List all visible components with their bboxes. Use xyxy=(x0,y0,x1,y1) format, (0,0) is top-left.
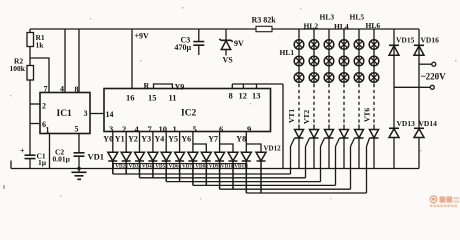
svg-text:Y2: Y2 xyxy=(128,134,138,143)
svg-text:7: 7 xyxy=(44,85,48,94)
diode VD8 xyxy=(201,152,211,185)
lamp column HL2 xyxy=(309,29,319,84)
svg-text:VS: VS xyxy=(223,56,234,65)
wire gate bus 2 xyxy=(140,177,306,179)
svg-text:Y4: Y4 xyxy=(155,134,165,143)
pin 3 wire to IC2 pin 14 xyxy=(90,113,104,115)
wire branch to VD10 xyxy=(220,144,233,152)
svg-text:+9V: +9V xyxy=(135,32,150,41)
svg-text:14: 14 xyxy=(106,110,114,119)
diode VD14 xyxy=(414,128,424,168)
svg-text:9V: 9V xyxy=(234,39,244,48)
diode VD10 xyxy=(228,152,238,189)
svg-text:HL2: HL2 xyxy=(304,22,319,31)
svg-text:VD15: VD15 xyxy=(396,36,415,45)
thyristor VT4 xyxy=(336,125,349,186)
svg-text:~220V: ~220V xyxy=(421,72,446,82)
svg-text:15: 15 xyxy=(148,93,157,103)
thyristor VT5 xyxy=(351,125,364,190)
wire gate bus 5 xyxy=(220,188,351,190)
svg-text:Y1: Y1 xyxy=(115,134,125,143)
lamp column HL6 xyxy=(369,29,379,84)
pin 2 stub xyxy=(30,103,40,105)
wire reset jumper pins 15-11 xyxy=(154,84,173,89)
svg-text:R3 82k: R3 82k xyxy=(252,16,277,25)
lamp column HL4 xyxy=(339,29,349,84)
node C2-ground junction xyxy=(77,167,80,170)
svg-text:VT1: VT1 xyxy=(287,109,296,123)
wire common cathode rail xyxy=(113,168,419,170)
svg-text:Y8: Y8 xyxy=(236,134,246,143)
svg-text:470µ: 470µ xyxy=(175,43,192,52)
thyristor VT6 xyxy=(367,125,379,194)
svg-text:100k: 100k xyxy=(10,64,26,73)
lamp column HL3 xyxy=(324,29,334,84)
svg-text:2: 2 xyxy=(42,102,46,111)
svg-text:IC2: IC2 xyxy=(181,109,197,119)
resistor R2 xyxy=(27,66,34,81)
label boxes VD2-VD11 xyxy=(114,164,248,169)
svg-text:1k: 1k xyxy=(36,41,45,50)
svg-text:12: 12 xyxy=(239,91,248,101)
ground xyxy=(72,172,87,179)
svg-text:Y5: Y5 xyxy=(168,134,178,143)
node terminal 2 xyxy=(430,85,434,89)
svg-text:0.01µ: 0.01µ xyxy=(53,155,71,164)
wire junction to IC1 pin7 xyxy=(30,58,49,93)
wire IC2 outputs to diodes xyxy=(113,132,247,153)
resistor R1 xyxy=(27,33,34,47)
wire branch to VD12 xyxy=(246,144,261,152)
svg-text:HL4: HL4 xyxy=(334,22,349,31)
pin 5 wire xyxy=(78,134,80,153)
svg-text:HL1: HL1 xyxy=(280,48,295,57)
svg-text:1µ: 1µ xyxy=(38,158,47,167)
svg-text:VD1: VD1 xyxy=(88,152,105,162)
svg-text:VD11: VD11 xyxy=(234,165,246,170)
diode VD3 xyxy=(135,152,145,178)
svg-text:VT2: VT2 xyxy=(302,110,311,124)
pin 16 wire to +9V xyxy=(131,29,133,89)
svg-text:VD14: VD14 xyxy=(419,119,438,128)
logo watermark xyxy=(430,196,459,207)
svg-text:3: 3 xyxy=(84,109,88,118)
wire gate bus 1 xyxy=(113,173,291,175)
diode VD2 xyxy=(121,152,131,174)
thyristor VT3 xyxy=(321,125,334,182)
capacitor C3 xyxy=(198,29,200,41)
node terminal 1 xyxy=(432,62,436,66)
svg-text:VD16: VD16 xyxy=(421,36,440,45)
wire dashed lamp to thyristor links xyxy=(299,84,374,125)
svg-text:Y3: Y3 xyxy=(141,134,151,143)
wire gate bus 6 xyxy=(246,192,366,194)
pin 4 wire xyxy=(64,29,66,93)
svg-text:R: R xyxy=(144,82,150,91)
wire gate bus 3 xyxy=(166,181,320,183)
svg-text:11: 11 xyxy=(169,93,177,103)
svg-text:VD10: VD10 xyxy=(221,165,234,170)
thyristor VT1 xyxy=(291,125,304,175)
zener VS xyxy=(225,29,227,40)
svg-text:VD5: VD5 xyxy=(155,165,165,170)
diode VD11 xyxy=(241,152,251,193)
capacitor C2 xyxy=(74,153,85,156)
svg-text:VD12: VD12 xyxy=(264,145,282,153)
diode VD4 xyxy=(148,152,158,178)
svg-text:HL5: HL5 xyxy=(350,13,365,22)
diode VD13 xyxy=(389,128,399,168)
pin 8 wire xyxy=(78,29,80,93)
svg-text:VD4: VD4 xyxy=(142,165,152,170)
wire R2 down to C1 xyxy=(29,80,31,155)
svg-text:VD13: VD13 xyxy=(397,119,416,128)
svg-text:VD3: VD3 xyxy=(129,165,139,170)
svg-text:VT6: VT6 xyxy=(363,108,372,122)
pin 6 stub xyxy=(30,123,40,125)
wire branch to VD8 xyxy=(193,144,206,152)
wire +9V top rail xyxy=(30,28,419,30)
svg-text:HL3: HL3 xyxy=(320,13,335,22)
svg-text:9: 9 xyxy=(247,124,251,134)
IC2 box xyxy=(104,89,271,132)
thyristor VT2 xyxy=(306,125,319,178)
capacitor C1 xyxy=(25,155,36,158)
svg-text:Y6: Y6 xyxy=(181,134,191,143)
wire gate bus 4 xyxy=(193,184,336,186)
svg-text:HL6: HL6 xyxy=(366,21,381,30)
IC1 op box xyxy=(40,93,90,134)
wire lower AC terminal xyxy=(394,86,430,88)
svg-text:VD6: VD6 xyxy=(169,165,179,170)
diode VD7 xyxy=(188,152,198,185)
wire R1 to R2 xyxy=(29,47,31,66)
wire left rail top xyxy=(29,29,31,33)
lamp column HL1 xyxy=(294,29,304,84)
svg-text:5: 5 xyxy=(75,125,79,134)
svg-text:VD9: VD9 xyxy=(209,165,219,170)
wire pins 8,12,13 to common xyxy=(232,84,283,169)
speckle noise xyxy=(3,7,456,199)
svg-text:1: 1 xyxy=(173,124,177,134)
svg-text:VD7: VD7 xyxy=(182,165,192,170)
svg-text:+: + xyxy=(20,147,25,156)
diode VD9 xyxy=(215,152,225,189)
svg-text:VD8: VD8 xyxy=(195,165,205,170)
svg-text:8: 8 xyxy=(75,85,79,94)
diode VD12 xyxy=(256,152,266,193)
svg-text:Y7: Y7 xyxy=(208,134,218,143)
svg-text:16: 16 xyxy=(126,93,135,103)
pin 1 wire xyxy=(49,134,51,169)
diode VD15 xyxy=(389,29,399,128)
svg-text:Y0: Y0 xyxy=(103,134,113,143)
svg-text:13: 13 xyxy=(252,91,261,101)
diode VD6 xyxy=(175,152,185,181)
svg-text:8: 8 xyxy=(229,91,233,101)
svg-text:Y9: Y9 xyxy=(175,83,185,92)
diode VD5 xyxy=(161,152,171,181)
svg-text:VD2: VD2 xyxy=(115,165,125,170)
lamp column HL5 xyxy=(354,29,364,84)
wire bottom-left rail xyxy=(11,161,113,169)
svg-text:IC1: IC1 xyxy=(57,109,73,119)
svg-text:1: 1 xyxy=(46,126,50,135)
svg-text:4: 4 xyxy=(60,85,64,94)
diode VD16 xyxy=(414,29,424,128)
wire upper AC terminal xyxy=(419,63,432,65)
